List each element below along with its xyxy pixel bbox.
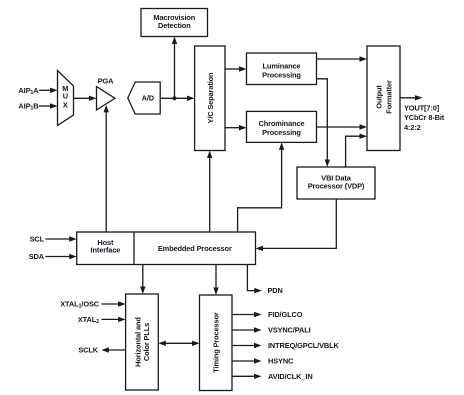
wire Y/C Separation to Luminance Processing [225,66,247,71]
svg-text:HSYNC: HSYNC [268,357,294,366]
svg-text:Interface: Interface [91,245,121,254]
wire MUX to PGA [74,96,97,101]
svg-text:AVID/CLK_IN: AVID/CLK_IN [268,372,313,381]
converter A/D [128,82,160,114]
svg-text:XTAL2: XTAL2 [78,315,99,325]
wire AVID/CLK_IN output [232,374,262,379]
label VSYNC/PALI [268,326,311,335]
block Horizontal and Color PLLs [126,294,159,390]
label Embedded Processor [158,244,232,253]
svg-text:Processor (VDP): Processor (VDP) [308,182,365,191]
label Luminance Processing [262,62,301,80]
label FID/GLCO [268,310,303,319]
wire SCL input [45,236,76,241]
svg-text:Timing Processor: Timing Processor [211,312,220,373]
block VBI Data Processor (VDP) [297,167,375,199]
svg-text:VSYNC/PALI: VSYNC/PALI [268,326,311,335]
label HSYNC [268,357,294,366]
svg-text:SCLK: SCLK [78,346,98,355]
label Timing Processor [211,312,220,373]
wire PGA gain control from Host Interface [104,105,109,232]
wire Embedded Processor to Timing Processor [213,265,218,296]
label Chrominance Processing [259,119,305,137]
svg-text:XTAL1/OSC: XTAL1/OSC [60,300,100,310]
label VBI Data Processor (VDP) [308,174,365,191]
svg-text:Y/C Separation: Y/C Separation [206,72,215,123]
block Y/C Separation [195,46,225,151]
block Timing Processor [200,295,233,391]
svg-text:X: X [63,100,68,109]
wire Chrominance Processing to Output Formatter [317,124,368,129]
label PGA [98,77,114,86]
block Host Interface / Embedded Processor [77,232,256,265]
wire PLLs to Timing Processor bidirectional [158,341,199,346]
label Horizontal and Color PLLs [134,317,152,367]
svg-text:YOUT[7:0]: YOUT[7:0] [404,104,440,113]
svg-text:Chrominance: Chrominance [259,119,305,128]
block Luminance Processing [247,53,317,85]
svg-text:A/D: A/D [142,94,155,103]
label XTAL1/OSC [60,300,100,310]
svg-text:Processing: Processing [262,70,301,79]
amplifier PGA [97,87,116,111]
wire PDN output [247,265,261,294]
svg-text:Detection: Detection [158,21,191,30]
wire VBI Data Processor to Embedded Processor [256,199,337,251]
wire HSYNC output [232,358,262,363]
label AVID/CLK_IN [268,372,313,381]
svg-text:Embedded Processor: Embedded Processor [158,244,232,253]
wire junction to Macrovision Detection [172,37,177,99]
svg-text:Processing: Processing [262,128,301,137]
label PDN [268,286,283,295]
label A/D [142,94,155,103]
wire Embedded Processor to Y/C Separation [207,151,212,233]
label INTREQ/GPCL/VBLK [268,341,340,350]
svg-text:AIP1B: AIP1B [18,102,38,112]
wire FID/GLCO output [232,312,262,317]
svg-text:PDN: PDN [268,286,283,295]
wire Luminance Processing to Output Formatter [317,56,368,61]
label AIP1A [18,86,39,96]
label SCL [30,235,45,244]
wire AIP1B input [39,103,58,108]
mux MUX [58,71,74,126]
svg-text:SDA: SDA [29,252,45,261]
block Macrovision Detection [141,9,208,37]
wire XTAL2 input [101,317,125,322]
label Host Interface [91,238,121,254]
wire Embedded Processor to Chrominance Processing [238,142,285,232]
svg-text:Luminance: Luminance [263,62,301,71]
label Macrovision Detection [153,13,195,30]
wire Y/C Separation to Chrominance Processing [225,125,247,130]
svg-text:Formatter: Formatter [385,80,394,114]
block Chrominance Processing [247,111,317,142]
label XTAL2 [78,315,99,325]
wire Luminance Processing to VBI Data Processor [317,79,331,167]
label MUX [62,84,68,109]
label Y/C Separation [206,72,215,123]
label SCLK [78,346,98,355]
wire VSYNC/PALI output [232,327,262,332]
wire Output Formatter output YOUT [400,95,423,100]
wire A/D output to Y/C Separation [160,96,194,101]
svg-text:FID/GLCO: FID/GLCO [268,310,303,319]
svg-text:YCbCr 8-Bit: YCbCr 8-Bit [404,113,445,122]
svg-text:INTREQ/GPCL/VBLK: INTREQ/GPCL/VBLK [268,341,340,350]
wire INTREQ/GPCL/VBLK output [232,343,262,348]
block Output Formatter [367,46,400,151]
label AIP1B [18,102,38,112]
svg-text:AIP1A: AIP1A [18,86,39,96]
svg-text:PGA: PGA [98,77,114,86]
label Output Formatter [375,80,394,114]
label YOUT[7:0] YCbCr 8-Bit 4:2:2 [404,104,445,132]
node junction on A/D output [172,96,176,100]
svg-text:4:2:2: 4:2:2 [404,123,421,132]
wire XTAL1/OSC input [101,301,125,306]
svg-text:Output: Output [375,85,384,109]
svg-text:Color PLLs: Color PLLs [142,323,151,361]
wire AIP1A input [39,88,58,93]
wire VBI Data Processor to Output Formatter [346,134,367,168]
label SDA [29,252,45,261]
wire SDA input [45,254,76,259]
svg-text:SCL: SCL [30,235,45,244]
wire Embedded Processor to Horizontal and Color PLLs [140,265,145,295]
wire SCLK output [101,347,125,352]
